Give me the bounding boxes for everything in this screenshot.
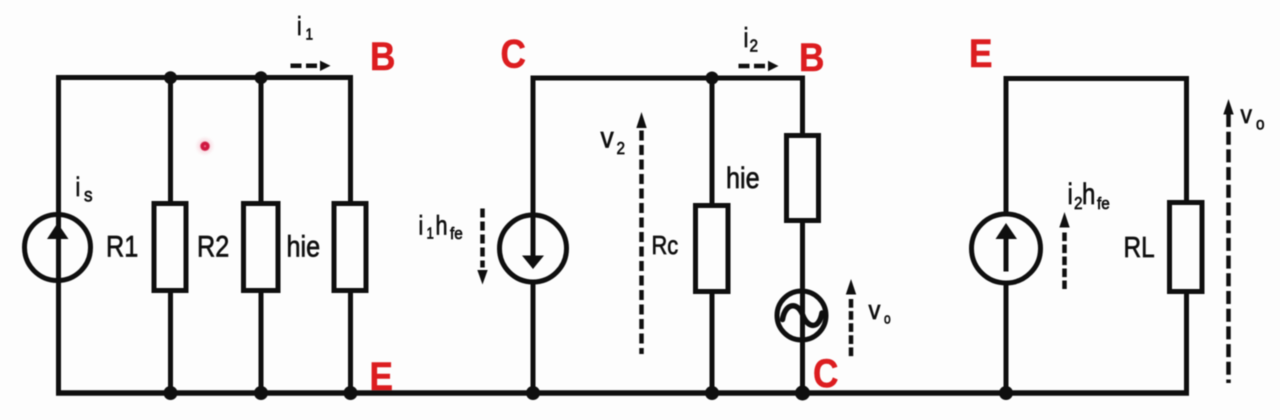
svg-text:E: E: [969, 31, 992, 76]
wire: Rc bottom stub: [710, 292, 715, 393]
svg-text:i: i: [297, 12, 302, 41]
controlled source i2hfe arrow (up): [996, 223, 1018, 239]
svg-text:2: 2: [750, 35, 759, 55]
wire: right source branch vertical (top stub to circle): [1004, 79, 1009, 217]
svg-text:RL: RL: [1124, 231, 1155, 263]
svg-text:C: C: [813, 351, 838, 396]
junction dot bottom Rc: [705, 386, 719, 400]
junction dot bottom R1: [164, 386, 178, 400]
resistor RL: [1170, 203, 1203, 292]
wire: middle source branch vertical (below circle): [531, 281, 536, 393]
voltage arrow v2 (dashed, up): [636, 112, 646, 354]
junction dot top R2: [255, 71, 268, 84]
svg-text:i: i: [1068, 176, 1073, 210]
wire: R2 bottom stub: [259, 291, 264, 393]
wire: hie bottom stub: [348, 291, 353, 393]
svg-text:hie: hie: [287, 229, 321, 263]
current arrow i2hfe (dashed, up): [1059, 212, 1069, 289]
wire: right source arrow shaft inside circle: [1004, 238, 1009, 272]
junction dot bottom node C: [795, 386, 810, 401]
svg-text:2: 2: [617, 138, 626, 158]
svg-text:h: h: [436, 211, 448, 241]
resistor Rc: [696, 206, 729, 292]
wire: RL top stub: [1184, 79, 1189, 203]
svg-text:1: 1: [427, 226, 434, 243]
svg-text:R1: R1: [106, 229, 138, 263]
current arrow i2 (dashed): [739, 61, 779, 71]
svg-text:v: v: [869, 296, 881, 326]
wire: middle source branch vertical (top, through circle to arrow): [531, 78, 536, 256]
sine voltage source vo (circle): [777, 291, 826, 340]
svg-text:B: B: [799, 35, 824, 80]
wire: R2 top stub: [259, 78, 264, 204]
wire: right source branch vertical (below circle): [1004, 281, 1009, 393]
junction dot bottom hie: [344, 386, 358, 400]
svg-text:o: o: [1256, 113, 1265, 133]
current source is arrow (up): [47, 223, 69, 239]
voltage arrow vo right (dashed, up): [1223, 99, 1233, 383]
controlled source i1hfe arrow (down): [522, 256, 544, 270]
junction dot bottom right source: [999, 386, 1013, 400]
svg-text:B: B: [370, 34, 395, 79]
svg-text:hie: hie: [726, 161, 760, 195]
svg-text:i: i: [419, 211, 424, 241]
wire: R1 bottom stub: [168, 291, 173, 393]
wire: left block top horizontal: [56, 75, 353, 80]
current source is (circle): [25, 215, 91, 281]
junction dot bottom R2: [254, 386, 268, 400]
svg-text:R2: R2: [197, 229, 229, 263]
wire: Rc top stub: [710, 78, 715, 205]
svg-text:o: o: [884, 310, 891, 327]
wire: R1 top stub: [168, 78, 173, 204]
current arrow i1hfe (dashed, down): [477, 209, 487, 285]
controlled current source i2hfe (circle): [972, 214, 1041, 283]
wire: hie2 top stub: [800, 78, 805, 135]
svg-text:fe: fe: [450, 224, 463, 243]
sine voltage source glyph: [783, 306, 823, 326]
wire: right block top horizontal: [1004, 76, 1190, 81]
wire: hie2 to sine source and bottom: [800, 221, 805, 393]
wire: RL bottom stub: [1184, 292, 1189, 393]
wire: hie branch vertical: [348, 78, 353, 204]
controlled current source i1hfe (circle): [500, 215, 567, 282]
voltage arrow vo middle (dashed, up): [846, 279, 856, 357]
svg-text:s: s: [84, 185, 93, 206]
svg-text:i: i: [76, 173, 81, 203]
svg-text:v: v: [601, 120, 615, 154]
laser pointer dot: [0, 0, 1, 1]
wire: left source branch vertical: [56, 75, 61, 393]
wire: bottom rail: [56, 390, 1189, 396]
svg-text:fe: fe: [1097, 194, 1110, 213]
svg-text:E: E: [370, 354, 393, 399]
resistor hie (input): [334, 204, 366, 291]
resistor R1: [154, 204, 186, 291]
resistor hie (second stage): [787, 136, 819, 221]
svg-text:v: v: [1241, 101, 1253, 130]
svg-text:Rc: Rc: [652, 231, 679, 260]
junction dot top middle Rc: [706, 72, 719, 85]
resistor R2: [244, 204, 279, 291]
svg-text:1: 1: [306, 26, 314, 43]
junction dot top B node: [164, 71, 177, 84]
svg-text:h: h: [1082, 176, 1095, 210]
svg-text:C: C: [501, 31, 526, 76]
current arrow i1 (dashed): [291, 61, 331, 71]
svg-text:i: i: [744, 23, 749, 54]
wire: middle block top horizontal: [531, 76, 806, 81]
junction dot bottom middle source: [526, 386, 540, 400]
